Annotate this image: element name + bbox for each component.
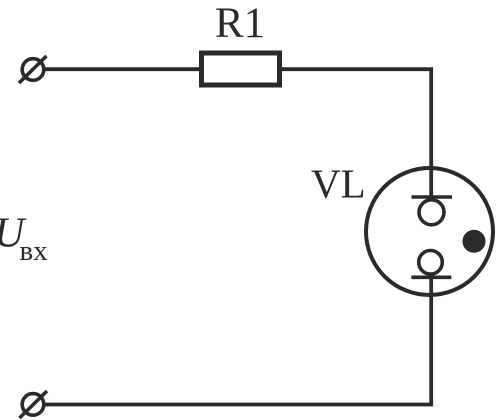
lamp top electrode (412, 197, 453, 225)
svg-text:VL: VL (311, 161, 366, 207)
lamp VL envelope (366, 168, 493, 295)
gas-fill dot (463, 230, 486, 253)
resistor R1 (202, 53, 280, 85)
terminal bottom (20, 391, 48, 418)
svg-text:R1: R1 (215, 0, 265, 47)
wire bottom (lamp bottom electrode down, left to terminal) (44, 277, 431, 404)
wire top (terminal to corner, down to lamp top electrode) (44, 69, 431, 197)
lamp bottom electrode (411, 250, 451, 277)
terminal top (19, 56, 47, 83)
svg-text:вх: вх (20, 235, 49, 267)
